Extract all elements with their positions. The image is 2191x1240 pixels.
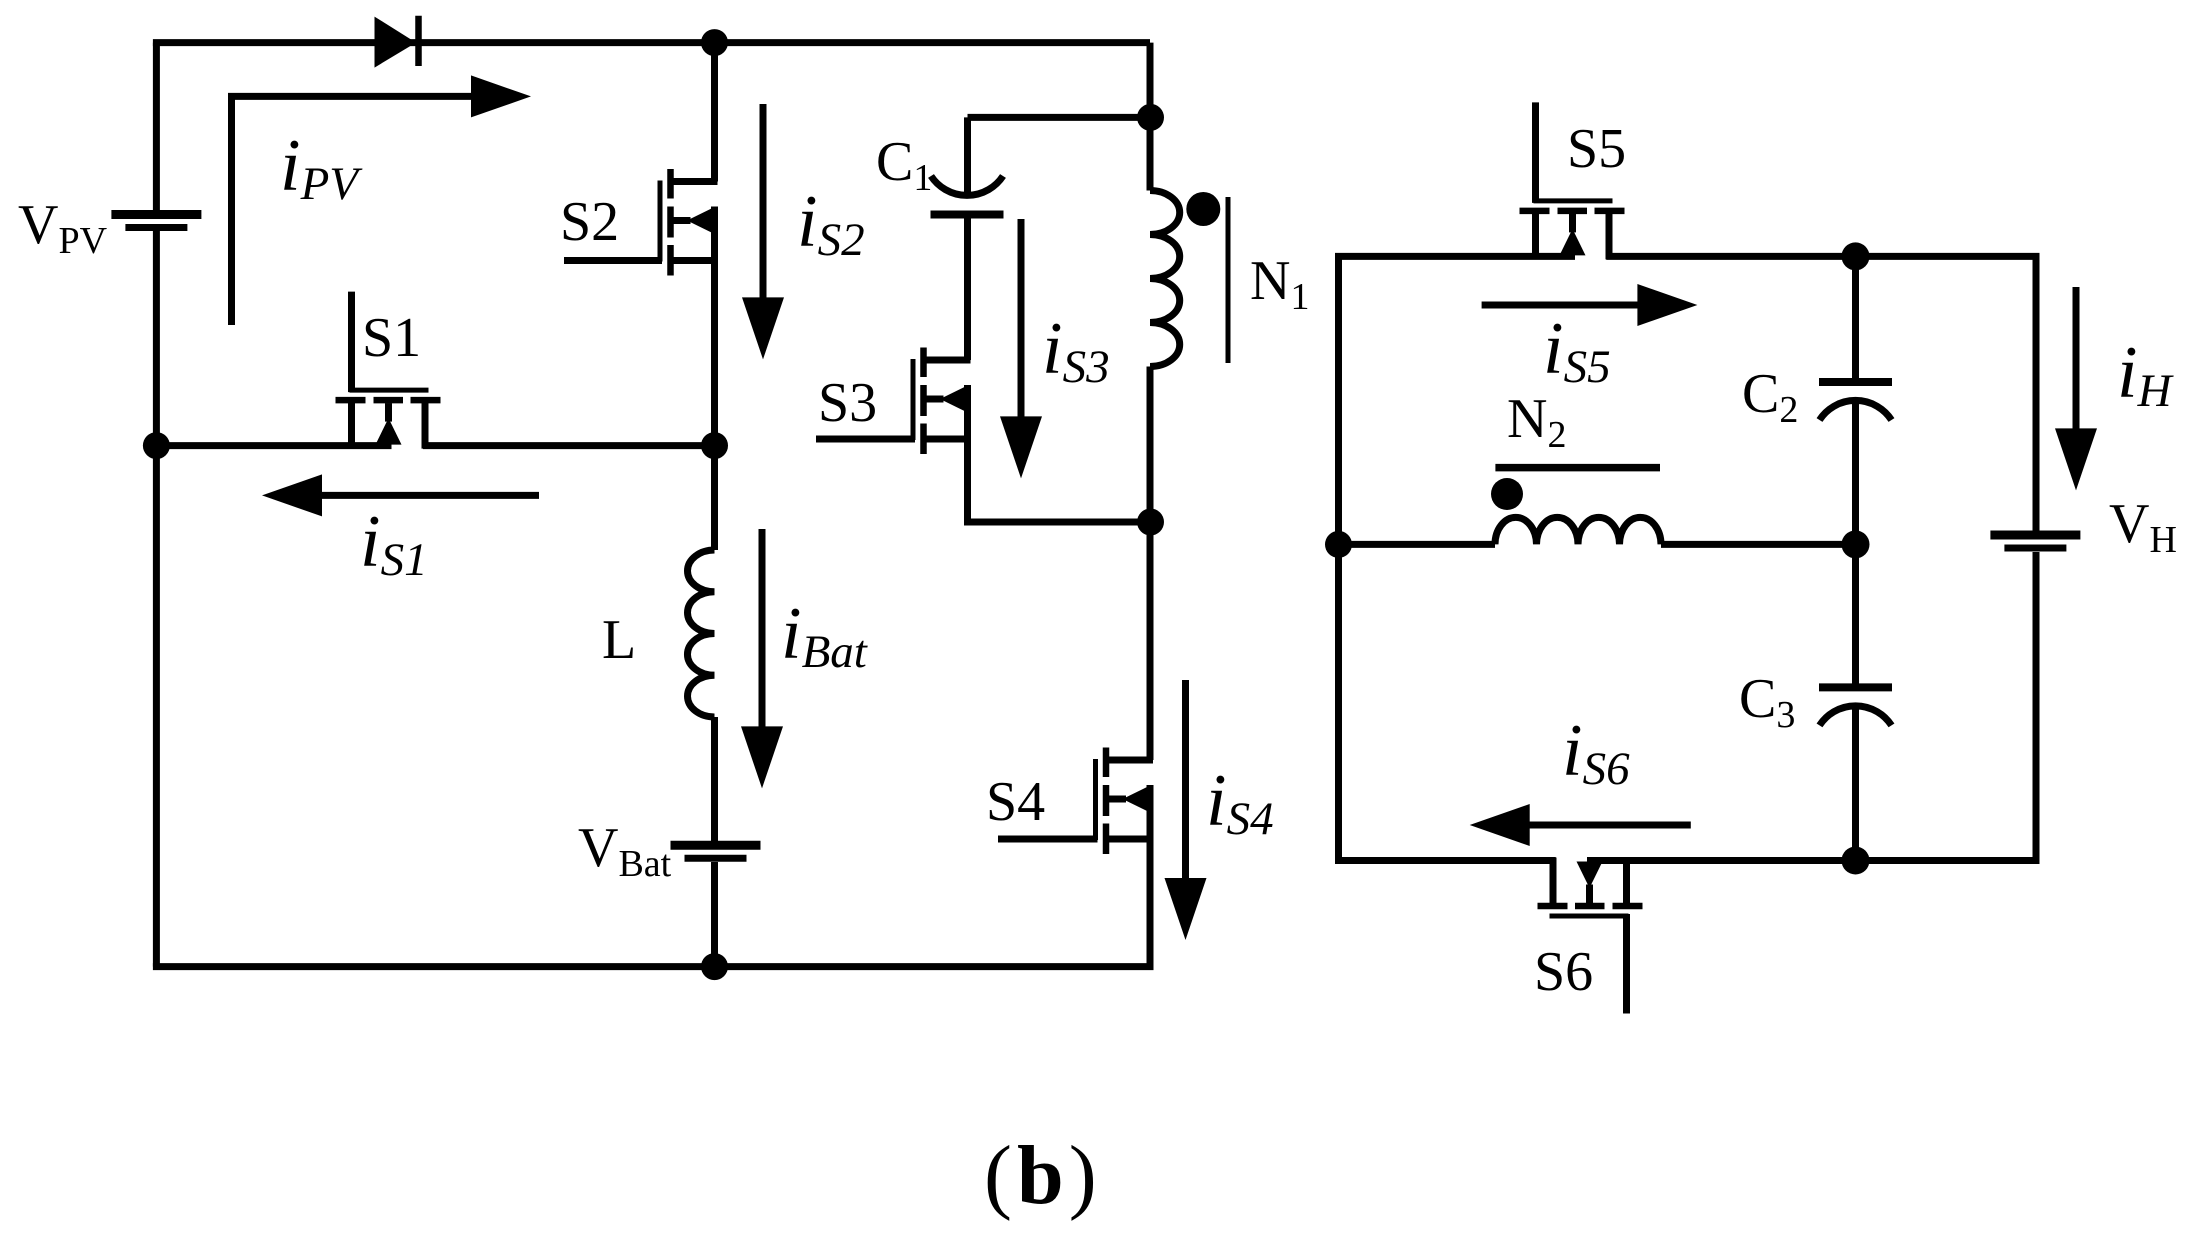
label V_PV	[18, 194, 108, 262]
transistor S3 (MOSFET)	[816, 348, 971, 455]
label S5	[1567, 118, 1626, 180]
wire S2 source rail	[711, 207, 718, 446]
label V_H	[2109, 493, 2177, 561]
current arrow i_PV	[228, 75, 531, 325]
label i_S2	[797, 181, 865, 266]
wire C3 bottom lead	[1852, 707, 1859, 860]
node C1 branch bottom	[1137, 509, 1164, 536]
label S4	[986, 771, 1045, 833]
wire left rail lower	[153, 231, 160, 967]
current arrow i_S6	[1470, 804, 1691, 846]
inductor L	[687, 550, 714, 717]
wire N1 to node	[1147, 367, 1154, 523]
node top wire / S2 drain	[701, 29, 728, 56]
label i_H	[2117, 332, 2175, 417]
wire right-circuit top left segment	[1335, 253, 1575, 260]
wire right-circuit top right segment	[1606, 253, 2039, 260]
wire C1 to S3 drain	[964, 219, 971, 361]
svg-text:(b): (b)	[984, 1129, 1102, 1222]
wire right-circuit bottom left segment	[1335, 857, 1556, 864]
svg-text:S1: S1	[362, 307, 421, 369]
current arrow i_S4	[1165, 680, 1207, 940]
svg-text:S4: S4	[986, 771, 1045, 833]
voltage source V_PV (battery)	[111, 215, 201, 228]
wire N2 right segment	[1661, 541, 1856, 548]
capacitor C2 (flat top plate + curved bottom plate)	[1819, 382, 1892, 420]
wire bottom rail	[153, 963, 1154, 970]
label S2	[560, 191, 619, 253]
svg-text:L: L	[602, 609, 636, 671]
wire C2 bottom lead	[1852, 402, 1859, 544]
wire left rail upper	[153, 43, 160, 211]
wire top-right rail segment	[1147, 43, 1154, 118]
svg-text:S6: S6	[1534, 941, 1593, 1003]
transformer secondary winding N2	[1495, 517, 1661, 544]
label i_S6	[1562, 710, 1630, 795]
transistor S1 (MOSFET)	[336, 292, 441, 449]
label S6	[1534, 941, 1593, 1003]
wire C1 branch bottom	[964, 519, 1150, 526]
label C1	[876, 131, 932, 199]
wire S1 left segment	[156, 442, 391, 449]
wire right-circuit right rail lower	[2033, 552, 2040, 861]
transformer primary winding N1	[1150, 191, 1180, 367]
node at V_PV row / S1 wire	[143, 432, 170, 459]
label L	[602, 609, 636, 671]
svg-text:S2: S2	[560, 191, 619, 253]
label N2	[1507, 388, 1566, 456]
wire C3 top lead	[1852, 544, 1859, 684]
transformer core bar N1	[1226, 197, 1231, 363]
wire S1 right segment	[423, 442, 715, 449]
transistor S2 (MOSFET)	[564, 169, 718, 276]
node S1-S2-L junction	[701, 432, 728, 459]
current arrow i_S5	[1482, 284, 1698, 326]
label S1	[362, 307, 421, 369]
current arrow i_Bat	[741, 529, 783, 788]
caption (b)	[984, 1129, 1102, 1222]
label N1	[1250, 250, 1309, 318]
wire C1 top lead	[964, 117, 971, 193]
wire top rail from V_PV to node A	[153, 39, 1150, 46]
wire L rail upper	[711, 446, 718, 550]
label S3	[818, 372, 877, 434]
polarity dot N2	[1491, 478, 1523, 510]
battery V_H	[1990, 535, 2080, 548]
label V_Bat	[578, 817, 672, 885]
current arrow i_S3	[1000, 219, 1042, 478]
node bottom wire / V_Bat	[701, 953, 728, 980]
node C3 bottom	[1842, 847, 1870, 875]
wire C1 branch top	[968, 114, 1151, 121]
transistor S6 (MOSFET, inverted)	[1538, 858, 1643, 1014]
current arrow i_H	[2055, 287, 2097, 490]
wire L to V_Bat	[711, 717, 718, 842]
wire V_Bat to bottom	[711, 862, 718, 967]
label i_S3	[1042, 308, 1110, 393]
wire N2 left segment	[1339, 541, 1496, 548]
diode D1 on top wire	[375, 16, 419, 68]
wire S3 source rail	[964, 385, 971, 522]
polarity dot N1	[1186, 192, 1220, 226]
transformer core bar N2	[1495, 464, 1660, 472]
label i_S5	[1543, 308, 1611, 393]
label i_Bat	[781, 593, 868, 678]
current arrow i_S2	[742, 104, 784, 359]
node C1 branch top	[1137, 104, 1164, 131]
wire N1 top lead	[1147, 117, 1154, 190]
node C2 top	[1842, 242, 1870, 270]
label C2	[1742, 363, 1798, 431]
label C3	[1739, 668, 1795, 736]
wire S4 source rail	[1147, 785, 1154, 967]
current arrow i_S1	[262, 474, 539, 516]
label i_PV	[280, 125, 363, 210]
transistor S4 (MOSFET)	[998, 748, 1153, 855]
node C2-C3-N2 junction	[1842, 530, 1870, 558]
label i_S1	[360, 501, 428, 586]
node N2 left	[1325, 531, 1352, 558]
wire S2 drain rail	[711, 43, 718, 182]
wire node to S4 drain	[1147, 522, 1154, 760]
svg-text:S3: S3	[818, 372, 877, 434]
transistor S5 (MOSFET)	[1520, 102, 1625, 259]
svg-text:S5: S5	[1567, 118, 1626, 180]
wire right-circuit right rail upper	[2033, 256, 2040, 531]
capacitor C1 (curved top plate + flat bottom plate)	[931, 176, 1004, 215]
wire right-circuit left rail	[1335, 256, 1342, 864]
wire C2 top lead	[1852, 256, 1859, 378]
capacitor C3 (flat top plate + curved bottom plate)	[1819, 687, 1892, 725]
wire right-circuit bottom right segment	[1587, 857, 2040, 864]
label i_S4	[1206, 760, 1274, 845]
battery V_Bat	[671, 845, 761, 858]
